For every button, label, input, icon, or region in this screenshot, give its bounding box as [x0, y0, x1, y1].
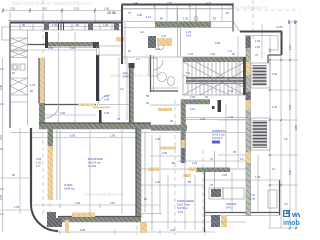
svg-text:2.30: 2.30 [250, 196, 256, 200]
orange strip y169 left [148, 168, 159, 172]
kitchen interior dim horizontals [141, 156, 246, 222]
orange strip near x160 [158, 108, 172, 111]
svg-text:h=2.60: h=2.60 [88, 164, 97, 168]
svg-text:1.20: 1.20 [103, 23, 109, 27]
svg-text:ww: ww [291, 210, 300, 219]
svg-text:www.imobiliare.ro www.imobili: www.imobiliare.ro www.imobiliare.ro [12, 1, 92, 7]
hol door circle 2 [159, 45, 164, 50]
mid horizontal wall band [39, 123, 151, 129]
svg-text:2.35: 2.35 [162, 151, 168, 155]
svg-text:2.2: 2.2 [0, 187, 4, 191]
jamb block second band [93, 42, 99, 48]
staircase outline [183, 57, 245, 95]
svg-text:S=8.2: S=8.2 [123, 74, 130, 78]
mid band right segment [151, 125, 187, 131]
right rooms dim horizontals [205, 120, 280, 180]
svg-text:1.10: 1.10 [192, 161, 198, 165]
closet shelf lines [10, 38, 28, 102]
orange strip y148 center [160, 147, 176, 150]
svg-text:1.50: 1.50 [52, 23, 58, 27]
svg-text:3.25: 3.25 [74, 7, 80, 11]
interior wall x131 vertical [130, 64, 134, 123]
thin dim pair x58 [57, 130, 60, 200]
terrace inner line [244, 35, 278, 37]
column block top-left 3 [88, 23, 93, 31]
svg-text:1.85: 1.85 [48, 46, 54, 50]
bath south wall [151, 88, 179, 91]
svg-text:5.90: 5.90 [80, 228, 86, 232]
svg-text:2.25: 2.25 [0, 194, 3, 200]
dimension line right col 3 [289, 22, 291, 230]
column block top-left 4 [114, 23, 119, 31]
top-right boundary vertical [232, 5, 234, 32]
under-band thin line [10, 132, 246, 134]
svg-text:3.25: 3.25 [170, 228, 176, 232]
svg-text:2.2: 2.2 [120, 87, 124, 91]
stair risers [188, 62, 240, 95]
svg-text:1.2: 1.2 [136, 57, 140, 61]
core band edges [181, 99, 210, 101]
east wall dark seg mid [246, 92, 251, 100]
dim slash ticks top line 1 [2, 4, 234, 13]
svg-text:1.35: 1.35 [14, 205, 20, 209]
orange strip right-bottom [221, 215, 227, 227]
svg-text:3.05: 3.05 [36, 157, 42, 161]
bath door arc [153, 60, 163, 70]
hatched wall band above bath [155, 22, 211, 28]
orange block top-mid [157, 38, 172, 46]
living west wall [30, 128, 32, 203]
rotated blue dims right side [268, 44, 298, 175]
svg-text:LIVING: LIVING [64, 183, 73, 187]
cap block x131 top [129, 63, 135, 68]
right small label 2 [240, 157, 244, 161]
dimension text left column [0, 67, 4, 216]
svg-text:SUFRAGERIE: SUFRAGERIE [177, 199, 194, 203]
svg-text:S=28 mp: S=28 mp [64, 186, 75, 190]
svg-text:2.10: 2.10 [70, 46, 76, 50]
small orange vertical bottom-left [65, 220, 69, 233]
dim slash ticks right columns [269, 21, 297, 229]
blue tick marks top right [289, 20, 295, 24]
core wall x183 orange segment [181, 140, 186, 148]
svg-text:1.20: 1.20 [36, 160, 42, 164]
svg-text:2.4: 2.4 [36, 164, 40, 168]
axis line vertical G [252, 0, 254, 40]
svg-text:+2.60: +2.60 [276, 25, 283, 29]
room labels top-mid [137, 13, 232, 53]
stair top wall band [183, 57, 245, 62]
svg-text:h=2.60 m: h=2.60 m [177, 206, 188, 210]
hinge dot [212, 106, 215, 109]
dimension line bottom outer [55, 228, 215, 235]
svg-text:1.90: 1.90 [104, 7, 110, 11]
washer symbol [12, 64, 25, 70]
kitchen south wall thin [141, 213, 162, 215]
corner elbow block [47, 212, 62, 227]
bath floor edge line [150, 104, 181, 106]
corridor dim vertical [126, 57, 128, 120]
line y161 [178, 160, 246, 162]
dimension line right col 4 [295, 22, 297, 230]
dimension line right col 2 [280, 55, 282, 228]
east wall dark seg top [246, 36, 251, 48]
interior wall y44 left thin part [28, 44, 46, 46]
east wall edges [245, 36, 247, 216]
bottom wall band [58, 217, 141, 223]
dark block right-bottom 1 [211, 189, 221, 197]
core wall band horizontal y100 [181, 100, 210, 105]
svg-text:2.90: 2.90 [137, 13, 143, 17]
kitchen north wall line [44, 104, 96, 106]
svg-text:1.30: 1.30 [183, 17, 189, 21]
core wall vertical x183 [181, 100, 186, 141]
hall west wall vertical thick [96, 55, 99, 101]
porch nib top-left [2, 27, 10, 40]
svg-text:1.10: 1.10 [104, 94, 110, 98]
svg-text:3.10: 3.10 [0, 134, 3, 140]
svg-text:2.80: 2.80 [215, 41, 221, 45]
svg-text:1.30: 1.30 [255, 175, 261, 179]
lintel orange above hall [116, 37, 124, 42]
stair right dark edge [243, 57, 246, 95]
garage/terrace step wall vertical [121, 5, 123, 65]
axis line vertical F [202, 150, 204, 235]
dark block left of orange top [148, 36, 156, 48]
axis line vertical A [42, 0, 44, 218]
column cluster top-left 2 [59, 23, 64, 31]
radiator block 1 [253, 65, 267, 86]
axis line horizontal H [236, 9, 300, 11]
core wall x183 edges [180, 100, 182, 164]
mid room label [88, 157, 103, 168]
svg-text:4.05: 4.05 [288, 169, 292, 175]
hall dim vertical [118, 57, 120, 120]
north inner wall of hall [97, 45, 123, 47]
kitchen door arc [45, 104, 59, 118]
extension lines from top walls [10, 6, 222, 22]
svg-text:4.15: 4.15 [186, 33, 192, 37]
svg-text:1.2: 1.2 [268, 48, 272, 52]
svg-text:17x: 17x [186, 71, 191, 75]
svg-text:3.5: 3.5 [284, 137, 288, 141]
small circle on band [194, 17, 198, 21]
axis line vertical B [49, 140, 51, 218]
living room label [64, 183, 75, 190]
blue texts left rooms [12, 46, 120, 209]
terrace south jog [268, 54, 282, 56]
svg-text:imobilia: imobilia [283, 220, 300, 227]
stair diagonal 1 [183, 62, 245, 95]
dark block right-bottom 2 [211, 215, 220, 227]
furniture small right [268, 190, 277, 208]
svg-text:2.15: 2.15 [288, 44, 292, 50]
right outer wall vertical [279, 180, 281, 215]
stair diagonal 5 [196, 62, 245, 88]
svg-text:1.10: 1.10 [250, 193, 256, 197]
svg-text:3.10: 3.10 [42, 7, 48, 11]
door arc hall [97, 95, 111, 109]
sufragerie room label [177, 199, 194, 214]
closet cross diagonals mid [10, 78, 28, 95]
svg-text:5.05: 5.05 [70, 134, 76, 138]
svg-text:S=21.5 mp: S=21.5 mp [177, 202, 190, 206]
interior vertical x177 top [177, 9, 179, 57]
svg-text:2.4: 2.4 [0, 102, 4, 106]
svg-text:1.2: 1.2 [240, 157, 244, 161]
gray wall above orange [48, 129, 54, 146]
east wall orange seg 3 [246, 152, 251, 163]
interior line west closet right [27, 30, 29, 125]
dimension line right col 1 [269, 35, 271, 228]
mid band bottom edge [39, 128, 151, 130]
dim texts above band right [128, 11, 229, 21]
orange strip below corner [140, 222, 147, 233]
radiator block 2 frame [251, 118, 270, 150]
dressing label right [212, 129, 226, 144]
east exterior wall strip [246, 36, 251, 216]
svg-text:1.45: 1.45 [228, 115, 234, 119]
band edges [122, 21, 233, 23]
curved wall arc bottom-left [31, 203, 58, 231]
svg-text:1.50: 1.50 [272, 72, 278, 76]
svg-text:2.6: 2.6 [284, 202, 288, 206]
terrace inner corner lines [277, 36, 279, 51]
east wall orange seg 1 [246, 62, 251, 75]
interior dim horizontals left [0, 50, 96, 210]
svg-text:2.20: 2.20 [222, 173, 228, 177]
step wall inner line [124, 23, 126, 65]
furniture table 2 [223, 188, 244, 199]
window mullions top-left [20, 23, 112, 31]
svg-text:8.85: 8.85 [294, 124, 298, 130]
svg-text:1.20: 1.20 [272, 105, 278, 109]
interior vertical x180 top [180, 28, 182, 57]
hall west wall upper thin [96, 46, 98, 55]
toilet ellipse [168, 77, 175, 86]
kitchen interior dim verticals [152, 135, 195, 230]
connector line terrace [233, 22, 240, 32]
blue marks closet [12, 71, 36, 93]
column block top-left 1 [44, 23, 49, 31]
svg-text:S=14.2 mp: S=14.2 mp [212, 132, 225, 136]
closet cross diagonals upper [10, 38, 28, 58]
right rooms dim verticals [226, 36, 258, 212]
svg-text:hol: hol [140, 30, 144, 34]
svg-text:1.2: 1.2 [0, 67, 4, 71]
blue texts right rooms [210, 115, 261, 200]
wall west-mid lower hatched [39, 103, 45, 128]
blue texts kitchen [144, 151, 191, 201]
watermark logo bottom-right [283, 210, 310, 227]
hall label [104, 87, 124, 115]
blue dim text in window band [22, 23, 109, 27]
axis line vertical D [151, 178, 153, 235]
svg-text:2.40: 2.40 [0, 84, 3, 90]
svg-text:1.20: 1.20 [188, 52, 194, 56]
radiator block 2 [253, 120, 268, 148]
svg-text:3.40: 3.40 [288, 104, 292, 110]
hol door circle 1 [149, 39, 155, 45]
stair core east wall vertical [136, 128, 141, 218]
wall stub x46 [45, 32, 48, 48]
svg-text:1.4: 1.4 [0, 212, 4, 216]
svg-text:1.23: 1.23 [186, 30, 192, 34]
orange strip y169 mid [188, 168, 197, 172]
line above bath [122, 56, 183, 58]
interior dim verticals left area [20, 32, 122, 214]
wall edge right of orange [44, 58, 46, 103]
south wall right section [205, 212, 280, 214]
dimension line top-right upper [122, 1, 233, 7]
wall stub below door [99, 110, 102, 123]
svg-text:1.75: 1.75 [30, 83, 36, 87]
second band hatched wall [46, 42, 99, 47]
svg-text:HOL: HOL [123, 71, 129, 75]
svg-text:1.30: 1.30 [104, 111, 110, 115]
core area dim marks [146, 94, 228, 177]
svg-text:4.40: 4.40 [75, 201, 81, 205]
svg-text:2.40: 2.40 [210, 52, 216, 56]
svg-text:2.10: 2.10 [110, 201, 116, 205]
insulated wall orange vertical mid-left [48, 146, 54, 200]
axis line vertical E [174, 100, 176, 235]
svg-text:www.imobiliare.ro: www.imobiliare.ro [228, 5, 267, 11]
core wall x183 dark segment [181, 148, 186, 163]
east wall edges [135, 128, 137, 218]
mid band top edge [39, 122, 151, 124]
wall edge left of orange [38, 58, 40, 103]
svg-text:2.05: 2.05 [104, 97, 110, 101]
orange block on bottom band [72, 213, 95, 218]
outer wall top-left horizontal [10, 22, 122, 24]
svg-text:2.1: 2.1 [272, 167, 276, 171]
stair mid band [186, 77, 245, 84]
misc thin interior lines kitchen top [99, 104, 130, 106]
svg-text:1.30: 1.30 [155, 137, 161, 141]
terrace east wall [281, 32, 283, 56]
svg-text:h=2.60 m: h=2.60 m [212, 136, 223, 140]
axis line vertical C [136, 128, 138, 235]
bottom right room label [226, 202, 237, 209]
left room label [36, 157, 42, 168]
bath west wall [151, 55, 154, 92]
core x216 lower thin [214, 151, 216, 190]
orange bit below band [183, 174, 191, 177]
svg-text:3.1: 3.1 [0, 147, 4, 151]
x131 edges [129, 64, 131, 123]
svg-text:3.40: 3.40 [60, 111, 66, 115]
orange strip left of door arc [78, 104, 95, 107]
thin top line above band [8, 20, 122, 22]
top hall label [123, 71, 130, 78]
dark block x219 [218, 100, 222, 112]
dimension line left outer [2, 58, 4, 232]
svg-text:1.90: 1.90 [110, 134, 116, 138]
bath sink circle [158, 73, 167, 82]
east wall orange seg 2 [246, 100, 251, 110]
svg-text:2.30: 2.30 [255, 45, 261, 49]
stair diagonal 3 [200, 70, 245, 95]
dimension line top-left [3, 7, 122, 13]
top-right terrace wall horizontal [240, 31, 282, 33]
living dim line y137 [32, 137, 136, 139]
mid band right edges [151, 124, 187, 126]
svg-text:19.08: 19.08 [107, 11, 116, 15]
left edge rotated dims [0, 84, 3, 200]
svg-text:DORMITOR: DORMITOR [212, 129, 226, 133]
top wall inner line [122, 8, 233, 10]
svg-text:21.5: 21.5 [178, 210, 184, 214]
stair area dim marks [186, 52, 235, 93]
interior vertical x196 top [195, 9, 197, 22]
window band line 1 [10, 26, 122, 28]
svg-text:2.15: 2.15 [190, 107, 196, 111]
svg-text:1.20: 1.20 [155, 180, 161, 184]
svg-text:1.05: 1.05 [255, 39, 261, 43]
bottom band edges [58, 216, 141, 218]
svg-text:TERASA: TERASA [226, 202, 237, 206]
wall y169 edges [141, 168, 196, 170]
svg-text:S=9.1: S=9.1 [226, 205, 233, 209]
insulated wall west-mid orange [39, 58, 45, 103]
svg-text:2.55: 2.55 [10, 7, 16, 11]
east room wall vertical [204, 172, 206, 232]
second band underline [46, 47, 99, 49]
stair diagonal 2 [183, 62, 245, 95]
bath tub [149, 58, 157, 76]
short dim v x262 [261, 24, 263, 58]
stair diagonal 4 [183, 75, 230, 95]
svg-text:1.25: 1.25 [200, 117, 206, 121]
wall band y169 right [196, 168, 230, 173]
top wall upper horizontal [122, 4, 233, 6]
door leaf orange [93, 107, 110, 109]
svg-text:1.15: 1.15 [228, 89, 234, 93]
window band line 2 [10, 29, 122, 31]
svg-text:1.10: 1.10 [146, 15, 152, 19]
bottom-right room furniture table 1 [209, 188, 223, 199]
dimension line top-right lower [122, 8, 233, 10]
double line y118 [186, 117, 247, 119]
hall top line [96, 54, 122, 56]
outer wall west vertical [9, 23, 11, 129]
dimension ticks right [268, 22, 298, 228]
radiator block 1 frame [251, 63, 270, 88]
parallel thin x145 [144, 131, 146, 212]
dimension line bottom mid [30, 201, 160, 208]
svg-text:1.05: 1.05 [190, 95, 196, 99]
svg-text:3.25: 3.25 [161, 34, 167, 38]
